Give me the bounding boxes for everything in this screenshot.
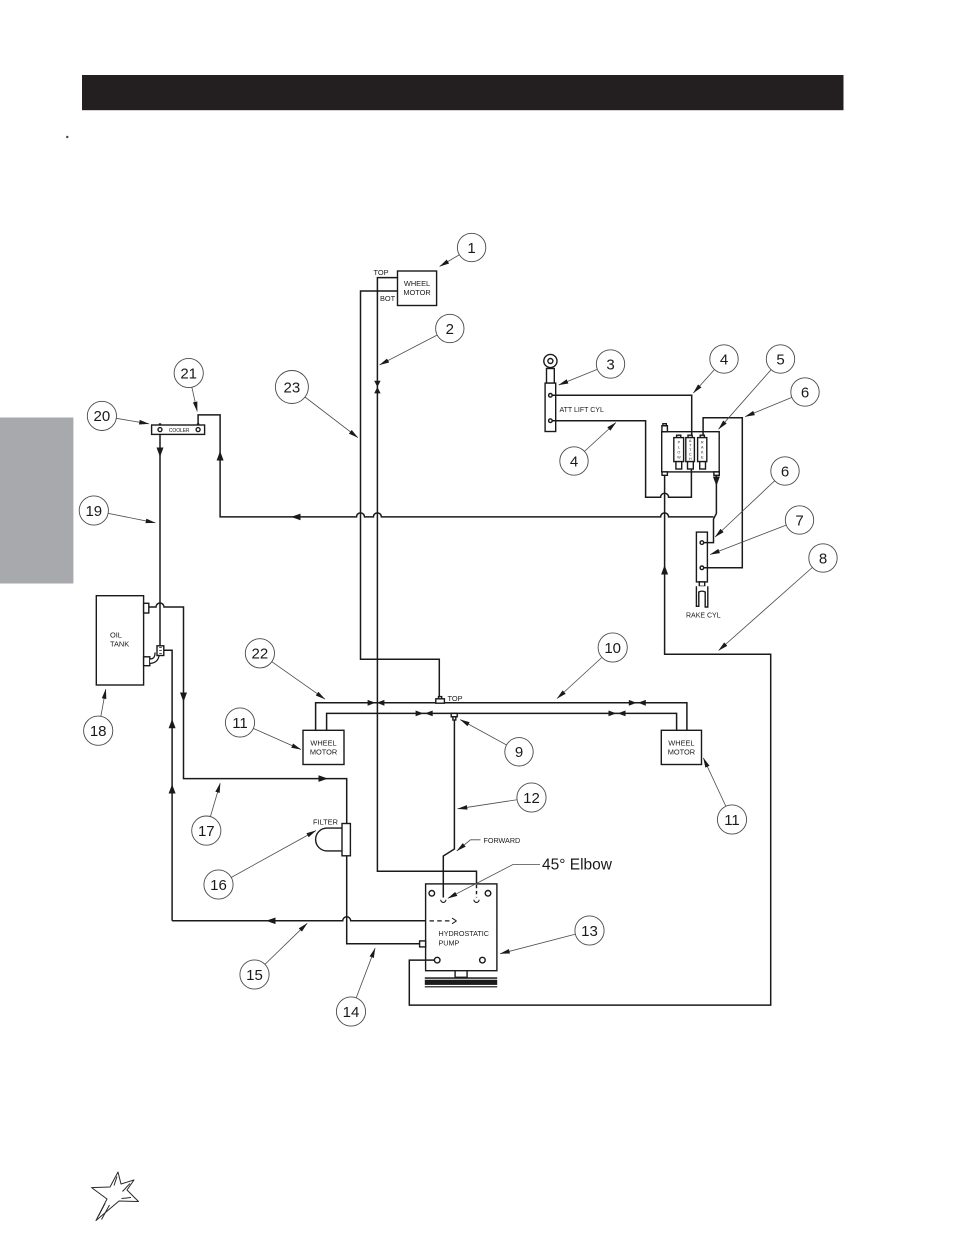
svg-text:18: 18 [90, 723, 107, 740]
wire stubs into valve spool tops [691, 432, 703, 472]
wire cooler outlet down to tank elbow [159, 434, 161, 646]
hydrostatic pump [420, 884, 497, 971]
wire stubs into rake cylinder ports [704, 543, 708, 568]
flow arrow right on suction horizontal [319, 775, 329, 782]
flow arrow up on tank return riser (lower) [169, 784, 176, 793]
svg-text:TOP: TOP [448, 694, 463, 703]
TOP tee fitting on upper bus line [436, 694, 463, 703]
leader callout 17 [206, 783, 220, 830]
wire suction tank top port to filter [149, 603, 347, 824]
wire dashed stub into pump top-right port [476, 885, 478, 898]
leader callout 11 right [703, 758, 732, 820]
gray sidebar tab [0, 418, 73, 584]
callout balloon 15 [240, 960, 269, 989]
svg-text:TOP: TOP [374, 268, 389, 277]
wire filter outlet to pump side stub [347, 856, 420, 944]
svg-text:12: 12 [523, 790, 540, 807]
svg-text:MOTOR: MOTOR [310, 748, 337, 757]
svg-text:MOTOR: MOTOR [403, 288, 430, 297]
callout balloon 6b [771, 457, 799, 485]
leader callout 11 left [240, 723, 301, 750]
wire hose-4 att lift cyl bottom port to ATTCH spool bottom [552, 421, 691, 498]
wheel motor M3 (right) [661, 730, 701, 764]
flow arrow pair on upper bus right [629, 700, 646, 706]
flow arrow up on tank return riser (upper) [169, 719, 176, 728]
svg-text:A: A [689, 439, 692, 443]
svg-text:RAKE CYL: RAKE CYL [686, 613, 721, 620]
wire hose-2 wheel motor M1 TOP down to pump FORWARD port [377, 278, 476, 885]
svg-text:K: K [701, 451, 704, 455]
elbow fitting item 9 on lower bus line [451, 713, 457, 720]
leader callout 21 [189, 373, 198, 411]
wire hose-23 wheel motor M1 BOT to TOP tee fitting [361, 291, 440, 699]
callout balloon 1 [457, 233, 485, 261]
cooler [152, 423, 205, 434]
callout balloon 13 [575, 916, 604, 945]
svg-text:4: 4 [570, 453, 578, 470]
flow arrow left on return line [291, 514, 301, 521]
callout balloon 20 [87, 401, 116, 430]
wire loop pump bottom port to valve bottom-left port [409, 475, 770, 1005]
rake cylinder [686, 532, 721, 619]
callout balloon 21 [174, 358, 203, 387]
callout balloon 11 left [225, 708, 254, 737]
flow arrow down on cooler-tank line [157, 448, 164, 458]
svg-text:13: 13 [581, 923, 598, 940]
logo star [92, 1172, 139, 1221]
svg-text:23: 23 [284, 379, 301, 396]
leader callout 10 [557, 648, 613, 699]
leader callout 14 [351, 948, 375, 1011]
svg-text:15: 15 [246, 967, 263, 984]
svg-text:E: E [701, 456, 704, 460]
wire hose-6 valve bottom-right port to rake cyl top port [704, 475, 716, 542]
svg-text:COOLER: COOLER [169, 428, 190, 434]
wire return line cooler to valve return junction [198, 415, 713, 517]
svg-text:FILTER: FILTER [313, 818, 338, 827]
label FORWARD with leader [457, 836, 520, 851]
svg-text:L: L [678, 446, 680, 450]
wire hose-6 rake cyl bottom port over valve to RAKE spool [703, 418, 742, 568]
wire bus line upper between wheel motors [316, 703, 687, 731]
svg-text:20: 20 [94, 408, 111, 425]
svg-text:R: R [701, 441, 704, 445]
callout balloon 22 [245, 639, 274, 668]
callout balloon 9 [505, 738, 533, 766]
leader callout 6a [745, 392, 805, 417]
svg-text:9: 9 [515, 744, 523, 761]
svg-text:45° Elbow: 45° Elbow [542, 857, 613, 874]
callout balloon 7 [785, 506, 813, 534]
svg-text:19: 19 [85, 503, 102, 520]
att lift cylinder [544, 354, 604, 431]
label 45 degree elbow with leader [448, 857, 613, 899]
svg-text:PUMP: PUMP [439, 939, 460, 948]
wire stub into pump top-left port [442, 884, 444, 898]
leader callout 4b [574, 423, 616, 462]
svg-text:14: 14 [343, 1004, 360, 1021]
svg-text:OIL: OIL [110, 631, 122, 640]
leader callout 5 [719, 359, 781, 429]
svg-text:3: 3 [606, 356, 614, 373]
svg-text:ATT LIFT CYL: ATT LIFT CYL [560, 407, 604, 414]
svg-text:MOTOR: MOTOR [668, 748, 695, 757]
flow arrow pair on lower bus left [416, 711, 433, 717]
callout balloon 14 [336, 997, 365, 1026]
wheel motor M2 (left) [303, 730, 344, 764]
leader callout 1 [440, 248, 472, 267]
wheel motor M1 (top) [374, 268, 437, 306]
svg-text:21: 21 [180, 365, 197, 382]
callout balloon 10 [598, 633, 627, 662]
svg-text:2: 2 [446, 321, 454, 338]
callout balloon 5 [766, 345, 794, 373]
flow arrow down on valve return port line [713, 477, 720, 487]
callout balloon 16 [204, 870, 233, 899]
flow arrow pair on lower bus right [609, 711, 626, 717]
svg-text:1: 1 [467, 240, 475, 257]
oil tank [96, 596, 150, 685]
flow arrow pair on upper bus left [368, 700, 385, 706]
leader callout 9 [460, 720, 519, 752]
valve block assembly item 5 [662, 424, 720, 476]
svg-text:6: 6 [801, 384, 809, 401]
svg-text:H: H [689, 457, 692, 461]
svg-text:7: 7 [795, 512, 803, 529]
svg-text:6: 6 [781, 463, 789, 480]
callout balloon 11 right [717, 805, 746, 834]
wire hose-9 elbow fitting down to pump top-left port [443, 720, 454, 898]
callout balloon 19 [79, 496, 108, 525]
svg-text:11: 11 [232, 715, 248, 732]
leader callout 18 [98, 689, 106, 731]
svg-text:22: 22 [252, 646, 269, 663]
svg-text:WHEEL: WHEEL [310, 739, 336, 748]
callout balloon 6a [791, 378, 819, 406]
svg-text:A: A [701, 446, 704, 450]
wire dashed segment into pump top-right port [476, 885, 478, 899]
callout balloon 3 [596, 350, 624, 378]
wire stubs into att lift cylinder ports [552, 395, 555, 420]
wire bus line lower between wheel motors [327, 713, 677, 730]
leader callout 19 [94, 511, 156, 523]
callout balloon 4a [710, 345, 738, 373]
svg-text:P: P [678, 441, 681, 445]
svg-text:O: O [677, 451, 680, 455]
leader callout 7 [710, 520, 799, 555]
leader callout 22 [260, 653, 325, 699]
flow arrow up on valve feed riser [661, 565, 668, 575]
flow arrow down on suction line [180, 693, 187, 703]
svg-text:5: 5 [776, 351, 784, 368]
leader callout 4a [693, 359, 724, 393]
callout balloon 2 [436, 314, 464, 342]
leader callout 3 [559, 364, 611, 385]
svg-text:10: 10 [604, 640, 621, 657]
svg-text:17: 17 [198, 823, 215, 840]
callout balloon 18 [84, 716, 113, 745]
leader callout 12 [458, 798, 532, 809]
callout balloon 4b [560, 447, 588, 475]
header bar [82, 75, 844, 110]
svg-text:16: 16 [210, 877, 227, 894]
leader callout 23 [292, 387, 358, 438]
wire return from pump left port up to tank elbow fitting [164, 650, 426, 921]
leader callout 20 [102, 416, 149, 424]
svg-text:BOT: BOT [380, 294, 396, 303]
callout balloon 8 [809, 544, 837, 572]
svg-text:TANK: TANK [110, 640, 129, 649]
stray dot [66, 136, 68, 138]
svg-text:HYDROSTATIC: HYDROSTATIC [439, 929, 489, 938]
pump pulley [425, 971, 497, 988]
needle valve on hose-2 [374, 381, 380, 394]
svg-text:11: 11 [724, 812, 740, 829]
wire hose-4 att lift cyl top port to ATTCH spool top [552, 395, 692, 435]
leader callout 13 [500, 931, 589, 954]
flow arrow up on cooler return riser [217, 451, 224, 461]
leader callout 16 [219, 831, 316, 885]
wire stub pump bottom-left port to edge [426, 959, 435, 961]
filter [313, 818, 350, 856]
leader callout 8 [719, 558, 823, 651]
leader callout 2 [380, 329, 450, 365]
svg-text:WHEEL: WHEEL [404, 279, 430, 288]
svg-text:WHEEL: WHEEL [668, 739, 694, 748]
callout balloon 23 [275, 371, 308, 404]
flow arrow left on pump return horizontal [266, 918, 276, 925]
leader callout 15 [255, 923, 308, 974]
callout balloon 17 [192, 816, 221, 845]
callout balloon 12 [517, 783, 546, 812]
svg-text:C: C [689, 453, 692, 457]
elbow fitting at tank lower port [150, 646, 164, 661]
leader callout 6b [715, 471, 785, 537]
svg-text:8: 8 [819, 550, 827, 567]
svg-text:4: 4 [720, 351, 728, 368]
svg-text:W: W [677, 456, 681, 460]
svg-text:FORWARD: FORWARD [484, 836, 521, 845]
